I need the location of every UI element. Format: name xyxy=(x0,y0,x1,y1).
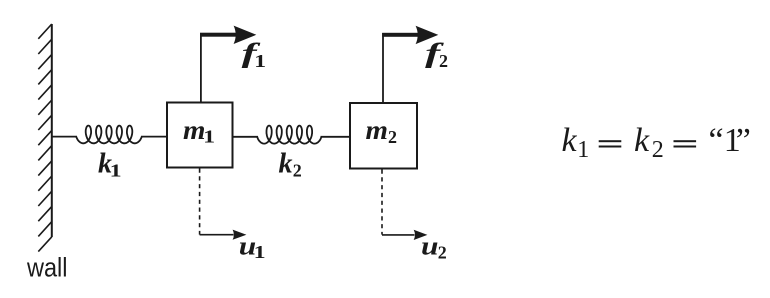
mass m1 box xyxy=(167,103,233,168)
svg-text:m: m xyxy=(366,115,389,145)
svg-text:k: k xyxy=(279,148,293,179)
displacement u1 arrow xyxy=(200,230,247,240)
equation k1 = k2 = "1" xyxy=(562,122,751,163)
svg-text:”: ” xyxy=(736,122,751,159)
displacement u1 dashed reference line xyxy=(199,169,201,235)
label f1 xyxy=(242,38,267,71)
label k2 xyxy=(279,148,302,180)
wire spring k1 to mass m1 xyxy=(141,136,167,138)
label u1 xyxy=(239,231,266,262)
svg-text:1: 1 xyxy=(203,127,215,147)
force f1 arrow xyxy=(200,26,256,44)
force f1 stem wire xyxy=(200,33,202,103)
svg-text:k: k xyxy=(562,122,578,159)
svg-text:1: 1 xyxy=(110,161,122,181)
wall xyxy=(38,24,52,252)
label f2 xyxy=(425,38,448,71)
wire mass m1 to spring k2 xyxy=(233,136,259,138)
svg-text:2: 2 xyxy=(652,137,664,163)
svg-text:1: 1 xyxy=(254,242,266,262)
svg-text:2: 2 xyxy=(293,160,302,180)
spring k1 xyxy=(76,126,142,144)
svg-text:2: 2 xyxy=(388,127,397,147)
label k1 xyxy=(98,149,122,181)
displacement u2 dashed reference line xyxy=(381,170,383,235)
svg-text:1: 1 xyxy=(254,51,266,71)
force f2 arrow xyxy=(382,26,438,44)
svg-text:k: k xyxy=(634,122,650,159)
svg-text:2: 2 xyxy=(439,51,448,71)
label m2 xyxy=(366,115,398,147)
svg-text:1: 1 xyxy=(577,137,589,163)
svg-text:wall: wall xyxy=(26,253,67,283)
mass m2 box xyxy=(350,103,417,169)
wire spring k2 to mass m2 xyxy=(321,136,351,138)
displacement u2 arrow xyxy=(382,230,427,240)
label m1 xyxy=(183,115,215,147)
spring k2 xyxy=(257,126,321,144)
svg-text:u: u xyxy=(421,232,439,261)
wire wall to spring k1 xyxy=(52,136,77,138)
force f2 stem wire xyxy=(382,33,384,103)
label u2 xyxy=(421,232,447,263)
svg-text:2: 2 xyxy=(438,243,447,263)
svg-text:“: “ xyxy=(709,122,724,159)
